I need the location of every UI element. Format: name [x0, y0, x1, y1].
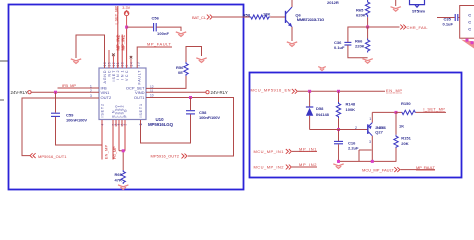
- junction node R65/R66/C36/CHR_FAIL: [366, 26, 369, 29]
- connector circle 24V-RLY left: [28, 91, 31, 94]
- svg-text:MMBT2222LT1G: MMBT2222LT1G: [297, 17, 325, 22]
- svg-text:MCU_MP5916_EN: MCU_MP5916_EN: [251, 88, 291, 93]
- svg-text:220K: 220K: [355, 44, 365, 49]
- wire MP_IN1: [292, 150, 317, 152]
- wire OUT1 pin to MP5916_OUT2 connector: [146, 98, 234, 157]
- svg-text:18K: 18K: [263, 12, 270, 17]
- resistor R56: [184, 62, 188, 76]
- resistor R148: [336, 102, 340, 118]
- svg-text:2.2uF: 2.2uF: [348, 145, 359, 150]
- svg-text:MCU_MP_IN2: MCU_MP_IN2: [254, 165, 285, 170]
- svg-text:47K: 47K: [115, 178, 122, 183]
- U10 pin numbers right side: [150, 85, 154, 98]
- power symbol 3.3V: [124, 11, 129, 27]
- wire D58 anode to base bus: [309, 116, 311, 130]
- wire R65 bottom to node: [367, 17, 369, 27]
- wire node to C36 top: [348, 27, 368, 42]
- diode D58 1N4148: [306, 107, 313, 116]
- svg-text:CHR_FAIL: CHR_FAIL: [407, 25, 429, 30]
- svg-text:MP5916LGQ: MP5916LGQ: [148, 122, 174, 127]
- svg-text:MP5916_OUT2: MP5916_OUT2: [151, 154, 180, 159]
- svg-text:MP_IN2: MP_IN2: [299, 162, 317, 167]
- wire collector rail: [339, 160, 397, 162]
- wire C16 top: [338, 130, 340, 142]
- svg-text:R150: R150: [401, 101, 411, 106]
- IC U10 MP5916LGQ body: [99, 68, 146, 120]
- ground above right box (cut): [318, 67, 326, 71]
- wire base bus to Q27: [310, 129, 368, 131]
- wire VCC pin to 3.3V rail: [126, 27, 128, 68]
- wire LSS1 pin: [115, 120, 117, 127]
- capacitor C58: [186, 111, 195, 114]
- wire R148 top: [338, 91, 340, 102]
- wire EN pin down: [101, 120, 103, 160]
- svg-text:I_SET_MP: I_SET_MP: [423, 106, 445, 111]
- ground (C56): [176, 32, 186, 37]
- U10 pin numbers bottom row: [100, 123, 143, 125]
- wire C36 bottom to R66 ground rail: [348, 45, 368, 57]
- wire OCP_SET pin to R56: [146, 76, 186, 88]
- sheet edge tick: [0, 60, 8, 62]
- svg-text:1: 1: [369, 117, 371, 121]
- svg-text:100nF: 100nF: [157, 31, 170, 36]
- resistor R150: [402, 110, 416, 114]
- wire R150 to I_SET_MP: [416, 111, 446, 113]
- capacitor C59: [51, 113, 60, 116]
- ground (C16): [333, 164, 343, 169]
- svg-text:20K: 20K: [401, 141, 408, 146]
- svg-text:FAULT: FAULT: [138, 70, 142, 85]
- sheet edge zone letter: [0, 99, 4, 101]
- svg-text:I_SET_MP: I_SET_MP: [115, 6, 119, 25]
- capacitor C35: [455, 14, 458, 21]
- wire IN1 pin: [121, 35, 123, 69]
- junction OUT1/C58: [189, 96, 192, 99]
- svg-text:0.1uF: 0.1uF: [443, 22, 454, 27]
- junction emitter/R150/R151: [395, 111, 398, 114]
- svg-text:0.1uF: 0.1uF: [334, 45, 345, 50]
- U10 pin numbers left side: [90, 85, 92, 99]
- svg-text:3.3V: 3.3V: [122, 6, 130, 10]
- wire OUT2 pin to MP5916_OUT1 connector: [22, 98, 99, 156]
- svg-text:100nF/100V: 100nF/100V: [66, 118, 87, 123]
- wire EN_MP rail: [298, 90, 385, 92]
- svg-text:Q27: Q27: [375, 130, 383, 135]
- svg-text:IFB_MP: IFB_MP: [62, 83, 76, 88]
- wire FAULT pin to MP_FAULT label: [137, 47, 172, 68]
- wire ISET pin net I_SET_MP: [117, 6, 119, 68]
- svg-text:C: C: [468, 26, 471, 31]
- junction EN_MP/D58: [308, 90, 311, 93]
- ground (R66/C36): [362, 59, 372, 64]
- svg-text:MP_IN1: MP_IN1: [120, 34, 125, 50]
- svg-text:MP5916_OUT1: MP5916_OUT1: [38, 154, 67, 159]
- svg-text:MP_IN1: MP_IN1: [299, 146, 317, 151]
- svg-text:620K: 620K: [356, 13, 366, 18]
- wire R148 bottom to base bus: [338, 118, 340, 129]
- wire emitter rail: [372, 111, 396, 113]
- wire NC pin 15 stub with no-connect X: [108, 50, 110, 68]
- svg-text:ISET2: ISET2: [100, 104, 104, 118]
- svg-text:NC: NC: [107, 70, 111, 76]
- wire pin 12 stub with no-connect X: [112, 54, 115, 69]
- transistor Q6 MMBT2222LT1G: [286, 0, 293, 27]
- wire IN2 pin: [117, 35, 119, 69]
- wire Q6 emitter to ground: [291, 27, 293, 41]
- capacitor C16: [334, 141, 343, 143]
- wire node to CHR_FAIL: [368, 26, 400, 28]
- svg-text:R58: R58: [243, 12, 251, 17]
- svg-text:MCU_MP_FAULT: MCU_MP_FAULT: [362, 168, 395, 173]
- ground top right (cut): [391, 0, 401, 11]
- wire R151 bottom to collector rail: [395, 148, 397, 161]
- svg-text:3: 3: [369, 140, 371, 144]
- svg-text:OUT2: OUT2: [101, 95, 112, 100]
- wire VIND pin to 24V-RLY right connector: [146, 91, 206, 93]
- wire C58 bottom to ISET1 pin: [141, 115, 191, 144]
- svg-text:ISET1: ISET1: [139, 104, 143, 118]
- resistor R60: [121, 170, 125, 184]
- svg-text:R151: R151: [401, 135, 411, 140]
- wire C56 to ground: [156, 27, 181, 31]
- svg-text:BAT_CL: BAT_CL: [192, 15, 207, 20]
- wire C35 right to edge component: [458, 17, 459, 19]
- resistor R66: [365, 39, 369, 53]
- resistor R58: [250, 15, 271, 19]
- wire junction to R150: [396, 111, 402, 113]
- svg-text:100K: 100K: [346, 107, 356, 112]
- wire LSS2 pin: [118, 120, 120, 151]
- resistor R151: [394, 135, 398, 149]
- svg-text:C56: C56: [152, 16, 160, 21]
- svg-text:MP_FAULT: MP_FAULT: [147, 42, 172, 47]
- wire MP_IN2: [292, 166, 317, 168]
- wire LSS bus to R60: [119, 151, 125, 170]
- svg-text:R148: R148: [346, 102, 356, 107]
- svg-text:2012R: 2012R: [327, 0, 339, 5]
- wire node to R66: [367, 27, 369, 39]
- ground (R60): [118, 185, 128, 190]
- ground (R56): [196, 58, 206, 63]
- sheet border box 1 (left): [9, 5, 244, 190]
- svg-text:D58: D58: [316, 106, 324, 111]
- wire pin 14 stub with no-connect X: [130, 56, 132, 68]
- component at right edge (cut): [460, 6, 474, 49]
- svg-text:24V-RLY: 24V-RLY: [11, 90, 28, 95]
- component cut at top edge (blue bracket): [410, 0, 425, 7]
- wire 3.3V rail to C56: [127, 26, 153, 28]
- junction VCC/3.3V node: [125, 26, 128, 29]
- svg-text:1K: 1K: [399, 124, 404, 129]
- wire BAT_CL to R58: [213, 16, 250, 18]
- svg-text:IN4148: IN4148: [316, 112, 330, 117]
- transistor Q27 2N3906: [368, 112, 373, 161]
- svg-text:ISET: ISET: [112, 70, 116, 82]
- svg-text:EN_MP: EN_MP: [105, 144, 109, 159]
- resistor R65: [365, 0, 369, 17]
- svg-text:MCU_MP_IN1: MCU_MP_IN1: [254, 149, 285, 154]
- off-page connector MP5916_OUT1: [30, 153, 36, 158]
- wire MP_FAULT: [400, 169, 435, 171]
- svg-text:EN_MP: EN_MP: [386, 88, 402, 93]
- svg-text:MP_FAULT: MP_FAULT: [416, 165, 436, 170]
- svg-text:R60: R60: [115, 172, 123, 177]
- wire C35 left: [437, 17, 455, 19]
- svg-text:PG_MP: PG_MP: [113, 146, 117, 159]
- ground (AGND): [71, 59, 81, 64]
- wire C58 top: [190, 98, 192, 111]
- wire C16 bottom to ground: [338, 144, 340, 163]
- wire AGND pin 16 to ground: [76, 35, 105, 68]
- svg-text:ST 5mm: ST 5mm: [412, 8, 425, 13]
- svg-text:VCC: VCC: [125, 70, 129, 81]
- junction collector rail: [371, 160, 374, 163]
- svg-text:OUT1: OUT1: [134, 95, 145, 100]
- junction EN_MP/R148: [337, 90, 340, 93]
- wire IFB pin: [58, 87, 100, 89]
- svg-text:0E: 0E: [178, 70, 183, 75]
- svg-text:AGND: AGND: [103, 70, 107, 83]
- off-page connector MP5916_OUT2: [182, 154, 188, 159]
- capacitor C36: [344, 42, 351, 45]
- junction LSS bus: [122, 149, 125, 152]
- wire LSS2 stub: [121, 120, 123, 127]
- wire VIN1 rail: [31, 91, 99, 93]
- wire junction down to R151: [395, 112, 397, 134]
- sheet border box 2 (right): [250, 73, 462, 178]
- svg-text:C: C: [468, 19, 471, 24]
- svg-text:24V-RLY: 24V-RLY: [211, 90, 228, 95]
- svg-text:3: 3: [90, 94, 92, 98]
- wire R56 to ground: [186, 47, 202, 63]
- junction base bus / C16: [337, 128, 340, 131]
- junction C16/collector rail: [337, 160, 340, 163]
- wire R58 to Q6 base: [270, 16, 285, 18]
- svg-text:2: 2: [355, 126, 357, 130]
- connector circle 24V-RLY right: [206, 91, 209, 94]
- capacitor C56: [154, 23, 157, 31]
- U10 pin numbers top row: [103, 62, 141, 66]
- wire LSS0 pin: [112, 120, 114, 160]
- wire C59 top: [55, 92, 57, 112]
- wire C59 bottom to ISET2 pin: [56, 117, 103, 145]
- ground (Q6): [287, 42, 297, 47]
- svg-text:C: C: [468, 12, 471, 17]
- wire PG pin: [124, 120, 126, 151]
- junction VIN1/C59: [54, 91, 57, 94]
- svg-text:10: 10: [150, 94, 154, 98]
- svg-text:100nF/100V: 100nF/100V: [199, 115, 220, 120]
- wire stub near C16 labels: [359, 150, 372, 161]
- wire D58 cathode: [309, 91, 311, 107]
- off-page connector CHR_FAIL: [400, 25, 406, 30]
